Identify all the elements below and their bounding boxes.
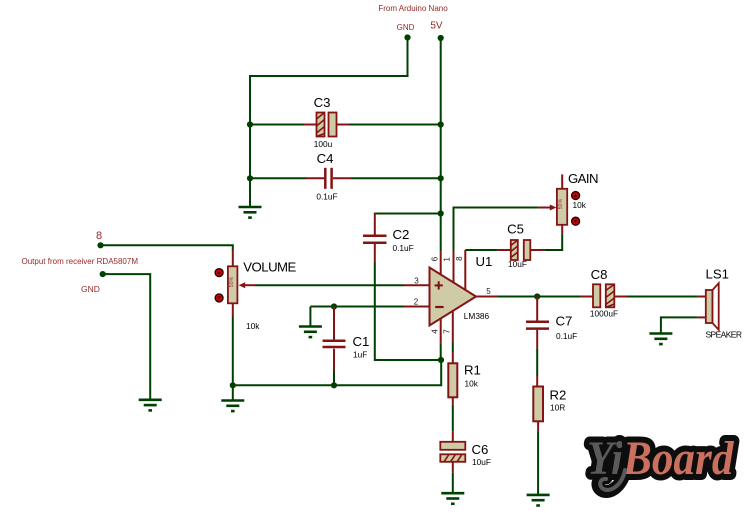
svg-text:10uF: 10uF — [472, 457, 491, 467]
ground (pin 2 branch) — [299, 327, 322, 338]
wire receiver GND to ground — [103, 274, 151, 399]
junction pin5 row / C7 branch — [534, 293, 540, 299]
svg-text:GAIN: GAIN — [568, 171, 599, 186]
junction 5V rail / C3 — [438, 121, 444, 127]
svg-text:0.1uF: 0.1uF — [316, 192, 337, 202]
svg-text:SPEAKER: SPEAKER — [706, 330, 743, 340]
svg-text:3: 3 — [414, 277, 419, 286]
wire pin 5 to C8 — [498, 296, 581, 298]
svg-text:Output from receiver RDA5807M: Output from receiver RDA5807M — [22, 257, 139, 266]
wire C8 to speaker — [627, 296, 697, 298]
node GND (receiver) dot — [100, 271, 106, 277]
svg-text:1uF: 1uF — [353, 350, 367, 360]
terminal node GND dot — [404, 34, 410, 40]
capacitor C7 — [526, 297, 549, 349]
svg-text:C4: C4 — [317, 151, 334, 166]
wire C3 row right segment — [349, 124, 441, 126]
svg-text:100u: 100u — [314, 139, 333, 149]
node 8 dot — [97, 242, 103, 248]
junction 5V rail / C4 — [438, 175, 444, 181]
pin 2 lead — [404, 306, 430, 308]
pin 7 lead — [452, 311, 454, 364]
capacitor C5 (electrolytic) — [498, 240, 545, 260]
capacitor C6 (electrolytic) — [440, 431, 465, 472]
svg-text:1000uF: 1000uF — [590, 309, 618, 319]
ground (left rail) — [239, 207, 262, 218]
logo YiBoard — [587, 431, 735, 492]
svg-text:5V: 5V — [430, 21, 443, 32]
svg-text:YiBoard: YiBoard — [587, 431, 735, 485]
svg-text:C5: C5 — [507, 222, 524, 237]
capacitor C8 (electrolytic) — [581, 284, 627, 307]
svg-text:C3: C3 — [314, 95, 331, 110]
pin 5 lead — [476, 296, 498, 298]
pin 8 lead and wire to C5 — [465, 250, 497, 290]
junction volume bottom / bottom rail — [230, 382, 236, 388]
speaker LS1 — [697, 283, 718, 330]
wire left rail to ground — [249, 178, 251, 207]
pin 1 lead and wire to gain wiper — [454, 208, 539, 283]
junction 5V rail / C2 branch — [438, 210, 444, 216]
junction C1 top / pin2 row — [331, 303, 337, 309]
resistor R1 — [448, 363, 457, 397]
pin 3 lead — [404, 284, 430, 286]
resistor R2 — [533, 376, 543, 431]
potentiometer VOLUME — [228, 249, 238, 317]
wire 5V rail vertical — [440, 38, 442, 214]
svg-text:VOLUME: VOLUME — [243, 260, 296, 275]
pin 4 lead — [440, 318, 442, 360]
wire left rail C3 to C4 — [249, 125, 251, 179]
svg-text:LM386: LM386 — [464, 311, 490, 321]
potentiometer GAIN wiper arrow — [538, 205, 556, 211]
svg-text:GND: GND — [81, 284, 100, 294]
wire C2 branch horizontal — [375, 213, 441, 215]
ground (C6) — [441, 493, 464, 504]
potentiometer VOLUME wiper arrow — [239, 282, 255, 288]
svg-text:C6: C6 — [472, 442, 489, 457]
capacitor C4 — [306, 168, 351, 189]
ground (receiver GND) — [139, 400, 162, 411]
svg-text:8: 8 — [96, 230, 102, 242]
potentiometer GAIN up button — [572, 192, 580, 200]
svg-text:10R: 10R — [550, 403, 565, 413]
svg-text:LS1: LS1 — [706, 267, 729, 282]
wire volume wiper to pin 3 — [255, 284, 404, 286]
svg-text:R1: R1 — [464, 363, 481, 378]
wire R2 to ground — [537, 431, 539, 494]
svg-text:4: 4 — [431, 329, 440, 334]
svg-text:6: 6 — [431, 256, 440, 261]
pin 6 lead — [440, 214, 442, 276]
junction pin 4 / C2 branch / bottom rail riser — [438, 357, 444, 363]
wire C4 row left segment — [250, 177, 306, 179]
op-amp U1 body — [430, 268, 477, 326]
wire bottom rail horizontal — [233, 360, 441, 385]
svg-text:10k: 10k — [573, 200, 587, 210]
wire pin 2 row — [310, 306, 404, 308]
svg-text:C7: C7 — [556, 314, 573, 329]
svg-text:0.1uF: 0.1uF — [556, 331, 577, 341]
svg-text:0.1uF: 0.1uF — [393, 243, 414, 253]
wire node 8 to volume top — [101, 245, 233, 250]
svg-text:1: 1 — [443, 257, 452, 262]
wire speaker bottom to ground — [661, 317, 698, 333]
wire C3 row left segment — [250, 124, 304, 126]
potentiometer VOLUME down button — [215, 294, 223, 302]
svg-text:10k: 10k — [465, 379, 479, 389]
svg-text:50%: 50% — [558, 198, 564, 209]
ground (volume bottom) — [221, 401, 244, 412]
capacitor C3 (electrolytic) — [304, 113, 349, 137]
ground (R2) — [527, 495, 550, 506]
wire GND terminal down and left to left rail — [250, 38, 408, 125]
wire volume bottom to bottom rail — [232, 317, 234, 386]
wire volume ground stub — [232, 385, 234, 400]
capacitor C2 — [363, 213, 387, 263]
svg-text:2: 2 — [414, 298, 419, 307]
ground (speaker) — [649, 334, 672, 345]
junction C1 bottom / bottom rail — [331, 382, 337, 388]
svg-text:5: 5 — [486, 287, 491, 296]
svg-text:10k: 10k — [246, 321, 260, 331]
svg-text:8: 8 — [455, 256, 464, 261]
potentiometer VOLUME up button — [215, 269, 223, 277]
svg-text:C8: C8 — [591, 267, 608, 282]
wire C2 bottom down to pin4 row — [375, 263, 441, 361]
terminal node 5V dot — [438, 35, 444, 41]
wire C7 to R2 — [536, 348, 538, 376]
wire pin2 ground stub — [309, 307, 311, 327]
svg-text:C1: C1 — [353, 334, 370, 349]
wire R1 bottom to C6 — [452, 397, 454, 431]
wire C6 to ground — [452, 473, 454, 493]
svg-text:50%: 50% — [229, 276, 235, 287]
svg-text:7: 7 — [443, 329, 452, 334]
svg-text:From Arduino Nano: From Arduino Nano — [378, 4, 448, 13]
capacitor C1 — [323, 307, 346, 371]
wire C1 bottom to bottom rail — [333, 371, 335, 386]
potentiometer GAIN — [557, 174, 567, 234]
potentiometer GAIN down button — [572, 217, 580, 225]
svg-text:R2: R2 — [550, 388, 567, 403]
wire GAIN bottom to C5 — [544, 234, 562, 250]
junction left rail / C4 — [247, 175, 253, 181]
svg-text:GND: GND — [397, 23, 415, 32]
svg-text:C2: C2 — [393, 227, 410, 242]
wire C4 row right segment — [351, 177, 441, 179]
svg-text:U1: U1 — [476, 254, 493, 269]
junction left rail / C3 — [247, 121, 253, 127]
